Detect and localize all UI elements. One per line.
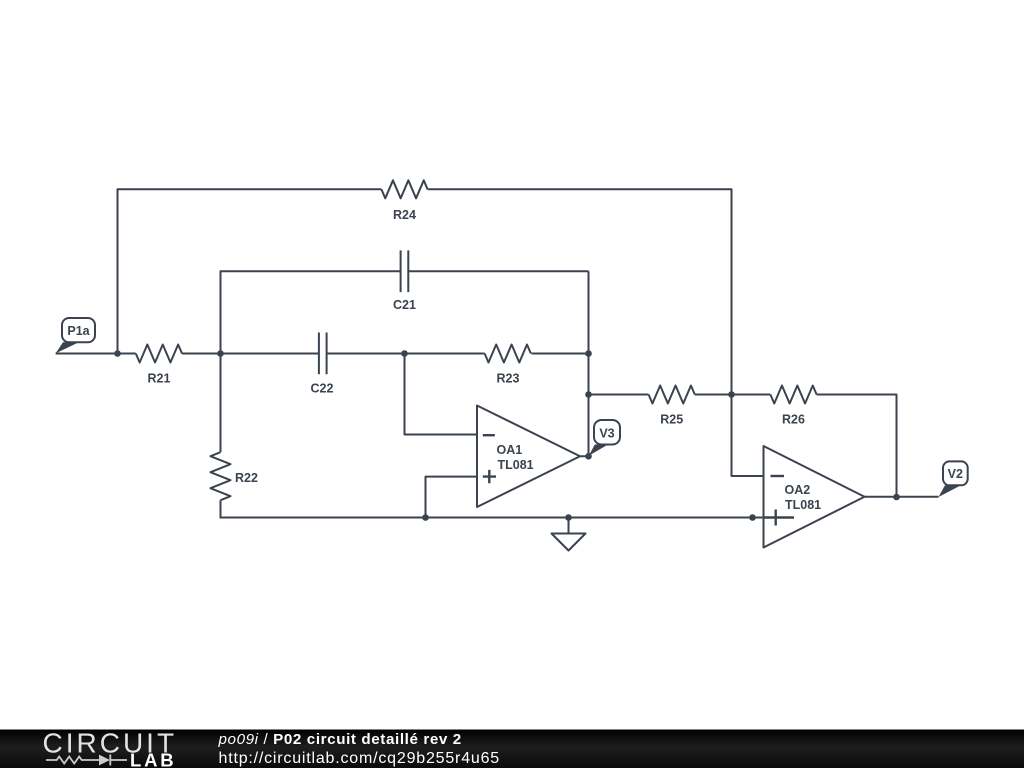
wire OA2 output [865,496,939,498]
wire OA1 non-inverting input [426,477,478,518]
wire C21 branch vertical and left [221,271,401,353]
node R25 tee junction [585,391,592,398]
node R23/C21 junction [585,350,592,357]
node OA2+ rail junction [749,514,756,521]
svg-text:TL081: TL081 [498,458,534,472]
wire R26 to right drop to output [817,395,897,498]
wire C21 right [408,270,588,272]
wire node to R26 [732,394,771,396]
wire R24 to right vertical down [428,189,732,394]
wire mid vertical [588,271,590,456]
svg-text:R26: R26 [782,413,805,427]
svg-text:R23: R23 [497,372,520,386]
svg-text:R22: R22 [235,471,258,485]
wire R21 to C22 [182,353,319,355]
node V2 flag [939,461,968,497]
resistor R25 [649,386,695,404]
resistor R21 [136,345,182,363]
svg-text:V3: V3 [599,427,614,441]
wire node to R23 [405,353,485,355]
capacitor C21 [401,250,409,292]
svg-text:OA2: OA2 [785,483,811,497]
svg-text:R24: R24 [393,208,416,222]
wire OA1 inverting input [405,354,478,435]
svg-text:V2: V2 [948,467,963,481]
svg-text:P1a: P1a [67,324,90,338]
node R21/C22/R22 junction [217,350,224,357]
CircuitLab logo [43,728,178,768]
wire R23 to mid vertical [531,353,588,355]
resistor R26 [770,386,816,404]
svg-text:R25: R25 [660,413,683,427]
svg-text:OA1: OA1 [497,443,523,457]
node V3 flag [589,420,620,456]
footer bar [0,730,1024,768]
ground [552,534,586,551]
wire R22 top lead [220,354,222,453]
wire to R25 [589,394,649,396]
svg-text:http://circuitlab.com/cq29b255: http://circuitlab.com/cq29b255r4u65 [219,750,500,767]
wire bottom rail [220,517,795,519]
wire feedback left vertical and top to R24 [118,189,382,353]
node C22/R23/OA1- junction [401,350,408,357]
capacitor C22 [319,333,327,375]
wire R25 to node [695,394,732,396]
node OA2 output junction [893,494,900,501]
svg-text:C22: C22 [311,382,334,396]
node P1a flag [56,318,95,353]
svg-text:po09i / P02 circuit detaillé r: po09i / P02 circuit detaillé rev 2 [218,731,462,748]
node ground rail junction [565,514,572,521]
svg-text:LAB: LAB [130,750,176,768]
wire OA1 output [580,455,589,457]
wire R22 bottom lead [220,500,222,517]
svg-text:C21: C21 [393,298,416,312]
svg-text:TL081: TL081 [785,498,821,512]
node OA1 output junction [585,453,592,460]
op-amp OA1 [477,406,580,508]
svg-text:R21: R21 [148,372,171,386]
wire ground stub [568,518,570,534]
resistor R22 [211,452,231,500]
node P1a junction [114,350,121,357]
resistor R23 [485,345,531,363]
wire P1a to R21 [56,353,136,355]
resistor R24 [381,180,427,198]
node OA1+ rail junction [422,514,429,521]
wire to OA2 inverting input [732,395,764,477]
wire C22 to node at x404.5 [327,353,405,355]
op-amp OA2 [764,446,865,548]
node R25/R26/OA2- junction [728,391,735,398]
